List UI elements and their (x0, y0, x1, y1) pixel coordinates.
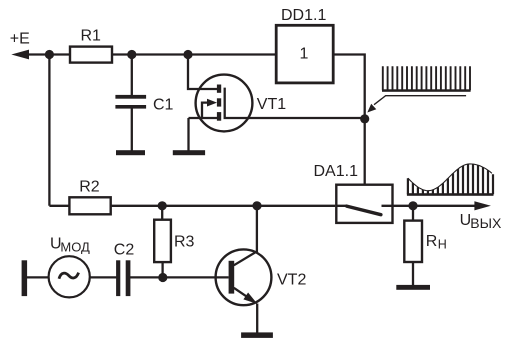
svg-text:C2: C2 (114, 242, 135, 259)
svg-text:DA1.1: DA1.1 (314, 163, 359, 180)
svg-text:Н: Н (438, 238, 447, 252)
svg-text:C1: C1 (153, 97, 174, 114)
svg-text:+Е: +Е (10, 30, 30, 47)
svg-text:1: 1 (300, 46, 309, 63)
svg-text:МОД: МОД (60, 239, 90, 254)
svg-text:R2: R2 (79, 179, 100, 196)
svg-text:R1: R1 (81, 28, 102, 45)
svg-text:R3: R3 (174, 234, 195, 251)
svg-text:R: R (426, 233, 438, 250)
svg-text:DD1.1: DD1.1 (281, 7, 326, 24)
svg-text:VT1: VT1 (257, 96, 286, 113)
svg-text:VT2: VT2 (277, 272, 306, 289)
svg-text:ВЫХ: ВЫХ (470, 215, 502, 231)
